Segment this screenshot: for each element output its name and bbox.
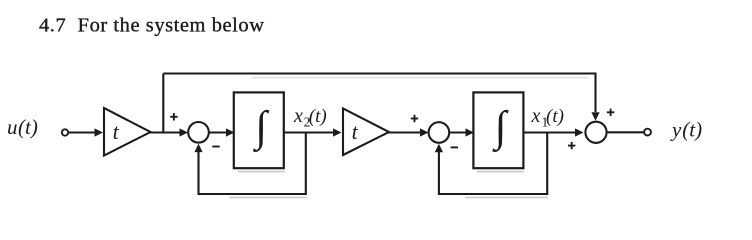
svg-text:4.7 For the system below: 4.7 For the system below [39,15,265,37]
wire S3 to output terminal [607,131,644,133]
arrowhead into A2 [333,128,342,136]
svg-text:t: t [352,119,359,144]
plus sign at S2 [411,115,418,122]
arrowhead up into S2 [435,144,443,153]
wire input terminal to amplifier A1 [68,131,96,133]
wire A2 to summer S2 [389,131,421,133]
amplifier A1 (gain t) [104,108,151,156]
svg-text:∫: ∫ [492,103,509,152]
wire I1 to amplifier A2 [284,131,334,133]
arrowhead into S3 [575,128,584,136]
wire S2 to integrator I2 [449,131,466,133]
minus sign at S2 [451,146,458,148]
minus sign at S1 [212,146,219,148]
summer S2 [429,122,450,143]
arrowhead up into S1 [194,144,202,153]
svg-text:x: x [293,105,303,127]
feedback wire I1 output to S1 [199,133,306,195]
arrowhead into S2 [420,128,429,136]
wire S1 to integrator I1 [209,131,227,133]
node tap after A1 [162,74,164,133]
wire A1 to summer S1 [151,131,181,133]
summer S3 [585,122,606,143]
svg-text:(t): (t) [682,117,702,141]
plus sign below wire into S3 [568,142,575,149]
feedback wire I2 output to S2 [439,133,547,195]
arrowhead into I1 [226,128,235,136]
svg-text:x: x [531,105,541,127]
svg-text:(t): (t) [309,106,327,127]
svg-text:y: y [670,117,682,141]
integrator I2 box [473,92,523,168]
amplifier A2 (gain t) [343,109,389,156]
plus sign at top input of S3 [607,109,614,116]
svg-text:u: u [7,115,18,139]
input terminal [62,129,68,135]
plus sign at S1 [170,113,177,120]
output terminal [644,129,651,136]
svg-text:(t): (t) [18,115,38,139]
svg-text:∫: ∫ [252,103,269,152]
svg-text:(t): (t) [546,106,564,127]
svg-text:t: t [113,119,120,144]
wire feedforward top run [163,74,595,113]
integrator I1 box [234,92,284,168]
summer S1 [188,122,209,143]
arrowhead down into summer S3 [591,112,599,121]
arrowhead into I2 [466,128,475,136]
arrowhead into A1 [95,128,104,136]
arrowhead into S1 [180,128,189,136]
wire I2 to summer S3 [523,131,576,133]
